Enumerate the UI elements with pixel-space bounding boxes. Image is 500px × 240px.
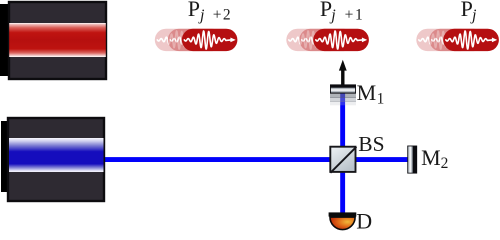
svg-text:P: P	[461, 0, 473, 21]
svg-text:P: P	[188, 0, 200, 21]
svg-text:j: j	[329, 7, 336, 24]
svg-text:1: 1	[377, 90, 385, 107]
svg-text:D: D	[356, 208, 372, 232]
svg-text:j: j	[198, 7, 205, 24]
svg-text:M: M	[357, 80, 377, 105]
svg-text:1: 1	[355, 6, 363, 23]
svg-text:2: 2	[223, 6, 231, 23]
svg-text:j: j	[470, 7, 477, 24]
svg-text:M: M	[421, 145, 441, 170]
svg-text:BS: BS	[358, 132, 384, 156]
svg-text:+: +	[213, 6, 222, 23]
svg-text:2: 2	[441, 155, 449, 172]
svg-text:+: +	[345, 6, 354, 23]
